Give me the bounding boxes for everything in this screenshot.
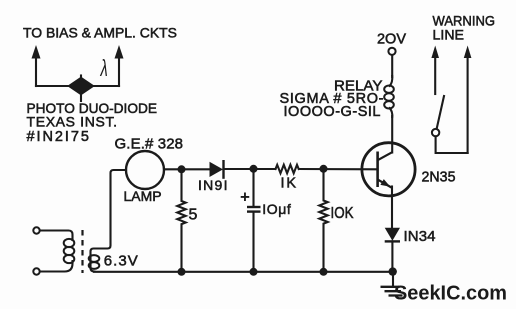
transformer core dashed line: [81, 230, 83, 273]
transformer primary terminal top: [33, 227, 39, 233]
svg-text:λ: λ: [100, 57, 108, 82]
svg-text:IN9I: IN9I: [198, 177, 228, 193]
label PHOTO DUO-DIODE: [27, 100, 158, 116]
label RELAY: [334, 77, 383, 94]
node resistor5 bottom: [178, 268, 186, 276]
relay coil: [384, 76, 394, 117]
relay terminal circle: [388, 48, 395, 55]
label 1N91: [198, 177, 228, 193]
resistor 5: [177, 169, 185, 272]
wire lamp left lead down to transformer secondary: [91, 170, 127, 272]
node lamp-resistor junction: [178, 165, 186, 173]
node capacitor top junction: [250, 165, 258, 173]
label 10000-G-SIL: [284, 104, 381, 120]
wire switch to warning loop: [436, 136, 468, 153]
wire diode to 1K: [224, 168, 276, 170]
svg-text:IOμf: IOμf: [262, 201, 291, 217]
svg-text:LINE: LINE: [433, 27, 465, 43]
arrow warning line left: [431, 46, 439, 95]
svg-text:5: 5: [189, 207, 198, 224]
label SIGMA #5RO-: [280, 91, 384, 107]
wire diode to ground node: [391, 241, 393, 271]
transformer primary terminal bottom: [33, 268, 39, 274]
ground: [381, 272, 403, 296]
resistor 1K: [276, 165, 299, 173]
svg-text:2OV: 2OV: [377, 31, 406, 48]
wire terminal to relay coil: [391, 55, 393, 77]
svg-text:6.3V: 6.3V: [104, 252, 138, 269]
transistor 2N35: [362, 143, 415, 196]
arrow to bias right: [115, 45, 124, 86]
node capacitor bottom: [250, 268, 258, 276]
label 20V: [377, 31, 406, 48]
svg-text:+: +: [240, 188, 250, 207]
label LAMP: [124, 188, 162, 204]
label G.E.# 328: [115, 136, 184, 153]
watermark SeekIC.com: [394, 283, 507, 305]
svg-text:IN34: IN34: [404, 228, 436, 245]
label #1N2175: [27, 129, 90, 145]
svg-text:2N35: 2N35: [422, 169, 456, 185]
capacitor 10uf: [247, 169, 261, 272]
switch blade: [437, 96, 444, 129]
node 10K top junction: [320, 165, 328, 173]
photo duo-diode (diamond): [69, 76, 94, 102]
arrow to bias left: [32, 45, 41, 86]
label 6.3V: [104, 252, 138, 269]
diode 1N91: [210, 160, 224, 179]
label 10K: [331, 205, 355, 222]
svg-text:TO BIAS & AMPL. CKTS: TO BIAS & AMPL. CKTS: [23, 25, 177, 41]
label WARNING: [433, 13, 496, 29]
svg-text:LAMP: LAMP: [124, 188, 162, 204]
svg-text:TEXAS INST.: TEXAS INST.: [27, 114, 118, 130]
switch contact: [432, 129, 439, 136]
wire photo-diode horizontal: [36, 85, 119, 87]
diode 1N34: [385, 228, 400, 242]
wire emitter to diode 1N34: [391, 187, 393, 229]
node 10K bottom: [320, 268, 328, 276]
wire 1K to transistor base: [299, 168, 378, 170]
lamp: [126, 151, 164, 189]
wire primary top lead: [40, 231, 73, 241]
transformer primary coil: [64, 239, 75, 263]
transformer secondary coil: [89, 255, 100, 269]
svg-text:IOOOO-G-SIL: IOOOO-G-SIL: [284, 104, 381, 120]
node ground junction: [389, 267, 397, 275]
label 1N34: [404, 228, 436, 245]
label 5: [189, 207, 198, 224]
arrow warning line right: [464, 46, 472, 154]
svg-text:G.E.# 328: G.E.# 328: [115, 136, 184, 153]
lambda symbol: [100, 57, 108, 82]
wire lamp right lead to diode: [164, 168, 210, 170]
svg-text:IOK: IOK: [331, 205, 355, 222]
label TO BIAS & AMPL. CKTS: [23, 25, 177, 41]
bottom rail wire: [94, 271, 393, 273]
wire relay coil to collector: [391, 116, 393, 153]
resistor 10K: [319, 169, 327, 272]
label LINE: [433, 27, 465, 43]
label TEXAS INST.: [27, 114, 118, 130]
label 1K: [281, 176, 297, 192]
label 2N35: [422, 169, 456, 185]
svg-text:IK: IK: [281, 176, 297, 192]
wire primary bottom lead: [40, 261, 73, 272]
label + polarity: [240, 188, 250, 207]
label 10uf: [262, 201, 291, 217]
svg-text:SeekIC.com: SeekIC.com: [394, 283, 507, 305]
